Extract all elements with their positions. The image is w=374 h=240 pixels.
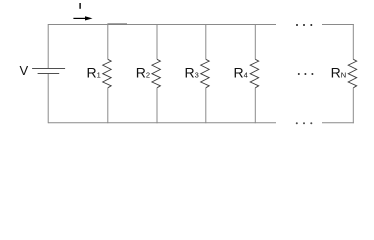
wire branch R2 upper — [156, 24, 158, 59]
svg-text:RN: RN — [331, 65, 347, 81]
wire branch R2 lower — [156, 88, 158, 123]
wire branch R3 upper — [205, 24, 207, 59]
svg-text:R4: R4 — [234, 65, 248, 81]
wire left vertical upper — [47, 24, 49, 68]
wire branch R1 upper — [107, 24, 109, 59]
svg-text:R3: R3 — [185, 65, 199, 81]
ellipsis dots bottom — [296, 122, 313, 124]
svg-text:V: V — [20, 63, 29, 78]
wire top darker overlap segment — [107, 23, 127, 25]
wire branch R3 lower — [205, 88, 207, 123]
wire branch R4 upper — [254, 24, 256, 59]
label I (current) — [79, 3, 80, 9]
battery V top plate — [32, 68, 65, 70]
wire branch RN upper — [352, 24, 354, 59]
wire bottom main — [48, 122, 276, 124]
wire bottom right segment — [322, 122, 354, 124]
resistor R1 — [103, 59, 112, 88]
wire branch R1 lower — [107, 88, 109, 123]
current arrow — [73, 16, 92, 20]
resistor RN — [348, 59, 357, 88]
resistor R4 — [250, 59, 259, 88]
wire branch R4 lower — [254, 88, 256, 123]
wire left vertical lower — [47, 74, 49, 123]
resistor R2 — [152, 59, 161, 88]
wire branch RN lower — [352, 88, 354, 123]
wire top main — [48, 24, 276, 26]
svg-text:R1: R1 — [87, 65, 101, 81]
wire top right segment — [322, 24, 354, 26]
svg-text:R2: R2 — [136, 65, 150, 81]
ellipsis dots top — [296, 24, 312, 26]
ellipsis dots middle — [298, 73, 314, 75]
resistor R3 — [201, 59, 210, 88]
battery V bottom plate — [38, 73, 60, 75]
